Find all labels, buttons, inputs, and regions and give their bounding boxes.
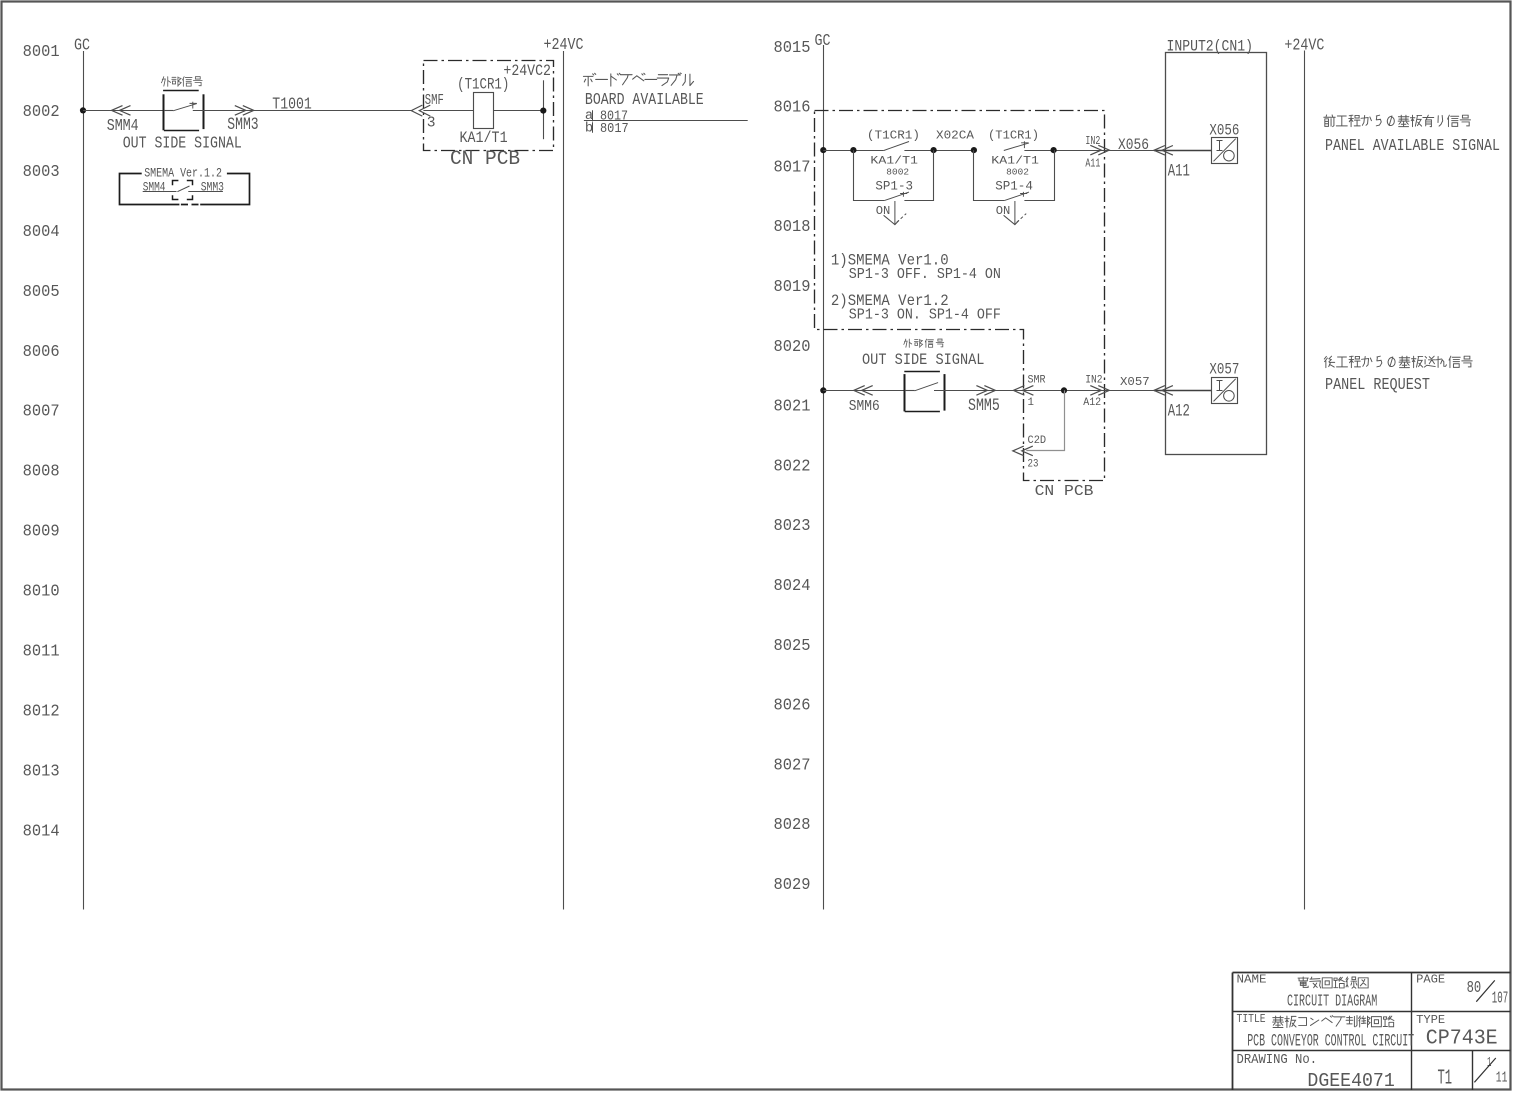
- note 前工程からの基板有り信号 (pseudo-glyphs): [1324, 115, 1471, 127]
- svg-text:DGEE4071: DGEE4071: [1307, 1070, 1394, 1093]
- svg-text:8003: 8003: [23, 162, 60, 181]
- relay coil KA1/T1: [474, 93, 494, 129]
- label 外部信号 (pseudo-glyphs): [161, 77, 202, 87]
- svg-text:8006: 8006: [23, 342, 60, 361]
- svg-text:IN2: IN2: [1085, 375, 1102, 387]
- arrow A12 (left chevrons at INPUT2 edge): [1154, 386, 1173, 396]
- svg-text:8013: 8013: [23, 762, 60, 781]
- arrow SMM4 (left chevrons): [112, 106, 131, 116]
- dashed brackets around smema contact: [173, 181, 193, 200]
- svg-text:ON: ON: [996, 204, 1011, 218]
- svg-text:X056: X056: [1118, 137, 1149, 154]
- svg-text:SMM3: SMM3: [201, 181, 224, 196]
- note box SMEMA Ver.1.2: [120, 174, 250, 205]
- svg-text:8007: 8007: [23, 402, 60, 421]
- wire X056 to INPUT2: [1104, 150, 1154, 152]
- svg-text:SMM4: SMM4: [107, 118, 139, 136]
- svg-text:(T1CR1): (T1CR1): [867, 129, 920, 143]
- svg-text:T1001: T1001: [272, 96, 312, 114]
- svg-text:8023: 8023: [774, 517, 811, 536]
- svg-text:8002: 8002: [1006, 167, 1029, 178]
- branch SP1-4 parallel wires: [974, 150, 1055, 200]
- switch S2 contact blade: [905, 390, 915, 392]
- svg-text:8027: 8027: [774, 756, 811, 775]
- svg-text:SP1-3 OFF. SP1-4 ON: SP1-3 OFF. SP1-4 ON: [849, 267, 1001, 284]
- svg-text:IN2: IN2: [1085, 135, 1100, 149]
- node: junction branch1 left: [850, 147, 856, 153]
- svg-text:A12: A12: [1083, 397, 1101, 409]
- wire from switch S1 to T1001 arrow: [193, 110, 411, 112]
- switch S1 contact blade: [164, 110, 173, 112]
- node: junction at +24VC2: [540, 108, 546, 114]
- wire smema contact: [143, 191, 223, 193]
- arrow SMR pin1 (left chevrons at dashed edge): [1013, 386, 1033, 396]
- svg-text:80: 80: [1467, 980, 1482, 998]
- arrow IN2 row8021 (right chevrons): [1090, 386, 1109, 396]
- connector box CN PCB (left, dash-dot): [424, 61, 554, 151]
- svg-text:8016: 8016: [774, 98, 811, 117]
- svg-text:8024: 8024: [774, 576, 811, 595]
- svg-text:CN PCB: CN PCB: [450, 148, 520, 170]
- svg-text:CN PCB: CN PCB: [1035, 483, 1094, 500]
- actuator ON SP1-4: [1014, 201, 1016, 225]
- wire C2D branch (light gray): [1026, 390, 1064, 450]
- note 後工程からの基板送れ信号 (pseudo-glyphs): [1324, 356, 1472, 367]
- svg-text:CP743E: CP743E: [1426, 1027, 1498, 1051]
- svg-text:8001: 8001: [23, 42, 60, 61]
- wire +24VC2 stub vertical: [543, 80, 545, 139]
- svg-text:PANEL REQUEST: PANEL REQUEST: [1325, 375, 1430, 395]
- left ladder line numbers 8001-8014: [23, 42, 60, 840]
- node: junction on GC rail row 8002: [80, 107, 86, 113]
- svg-text:8002: 8002: [886, 167, 909, 178]
- arrow SMM5 (right chevrons): [976, 386, 995, 396]
- svg-text:SMEMA Ver.1.2: SMEMA Ver.1.2: [144, 166, 222, 181]
- connector box CN PCB (right, dash-dot outline): [815, 111, 1105, 481]
- svg-text:PANEL AVAILABLE SIGNAL: PANEL AVAILABLE SIGNAL: [1325, 136, 1500, 156]
- svg-text:8021: 8021: [774, 397, 811, 416]
- wire row 8017 segment 2: [904, 150, 973, 152]
- svg-text:SMM3: SMM3: [227, 114, 258, 134]
- wire: branch separator line: [584, 120, 748, 122]
- wire: right GC vertical rail: [823, 45, 825, 910]
- right ladder line numbers 8015-8029: [774, 38, 811, 894]
- svg-text:8008: 8008: [23, 462, 60, 481]
- arrow A11 (left chevrons at INPUT2 edge): [1154, 146, 1173, 156]
- node: junction GC rail row 8021: [820, 387, 826, 393]
- label 外部信号 no.2 (pseudo-glyphs): [904, 339, 944, 347]
- svg-text:SP1-4: SP1-4: [995, 179, 1033, 193]
- svg-text:8019: 8019: [774, 277, 811, 296]
- title block frame: [1233, 972, 1511, 1090]
- contact SP1-3 blade: [884, 192, 909, 201]
- wire from S2 to CN PCB dashed edge: [934, 390, 1104, 392]
- svg-text:DRAWING No.: DRAWING No.: [1237, 1051, 1318, 1067]
- svg-text:KA1/T1: KA1/T1: [870, 154, 918, 167]
- wire: right +24VC vertical rail: [1304, 51, 1306, 910]
- node: junction GC rail row 8017: [820, 147, 826, 153]
- contact SP1-4 blade: [1004, 192, 1029, 201]
- svg-text:X02CA: X02CA: [936, 129, 974, 143]
- svg-text:8011: 8011: [23, 642, 60, 661]
- wire X057 to INPUT2: [1104, 390, 1154, 392]
- svg-text:SMM6: SMM6: [849, 399, 880, 415]
- wire row 8021 segment 1: [823, 390, 904, 392]
- svg-text:8004: 8004: [23, 222, 60, 241]
- svg-text:KA1/T1: KA1/T1: [460, 130, 508, 147]
- svg-text:SMR: SMR: [1028, 374, 1046, 386]
- I/O point X057 symbol: [1212, 378, 1238, 404]
- connector box INPUT2(CN1): [1166, 53, 1267, 455]
- arrow C2D pin23 (left chevrons): [1013, 446, 1033, 456]
- svg-text:8025: 8025: [774, 636, 811, 655]
- node: junction branch1 right: [931, 147, 937, 153]
- wire row 8017 segment 3: [1024, 150, 1104, 152]
- svg-text:GC: GC: [815, 30, 831, 50]
- svg-text:SP1-3: SP1-3: [875, 179, 913, 193]
- svg-text:23: 23: [1028, 459, 1039, 471]
- node: junction C2D branch: [1061, 387, 1067, 393]
- svg-text:(T1CR1): (T1CR1): [457, 76, 509, 94]
- svg-text:GC: GC: [74, 35, 90, 55]
- svg-text:8017: 8017: [774, 158, 811, 177]
- svg-text:8029: 8029: [774, 875, 811, 894]
- wire: left GC vertical rail: [83, 51, 85, 910]
- title 基板コンベア制御回路 (pseudo-glyphs): [1273, 1016, 1394, 1028]
- svg-text:X057: X057: [1120, 375, 1150, 389]
- svg-text:KA1/T1: KA1/T1: [991, 154, 1039, 167]
- arrow SMM6 (left chevrons): [854, 386, 873, 396]
- contact blade smema: [177, 186, 189, 192]
- node: junction branch2 right: [1051, 147, 1057, 153]
- note ボードアベーラブル (pseudo-glyphs): [583, 73, 693, 86]
- contact KA1/T1 no.1 (T1CR1): [884, 142, 909, 151]
- svg-text:8026: 8026: [774, 696, 811, 715]
- svg-text:X057: X057: [1209, 362, 1239, 379]
- switch S2 OUT SIDE SIGNAL (enclosure): [904, 372, 944, 412]
- svg-text:OUT SIDE SIGNAL: OUT SIDE SIGNAL: [862, 352, 984, 369]
- svg-text:SP1-3 ON. SP1-4 OFF: SP1-3 ON. SP1-4 OFF: [849, 307, 1001, 324]
- svg-text:PCB CONVEYOR CONTROL CIRCUIT: PCB CONVEYOR CONTROL CIRCUIT: [1247, 1032, 1414, 1052]
- arrow IN2 row8017 (right chevrons at CN PCB edge): [1090, 145, 1109, 155]
- svg-text:107: 107: [1492, 989, 1508, 1008]
- svg-text:8012: 8012: [23, 702, 60, 721]
- I/O point X056 symbol: [1212, 138, 1238, 164]
- svg-text:+24VC2: +24VC2: [503, 63, 551, 81]
- svg-text:A12: A12: [1168, 403, 1190, 421]
- wire row 8002 from GC rail to switch: [83, 110, 164, 112]
- svg-text:8017: 8017: [600, 120, 629, 136]
- svg-text:A11: A11: [1085, 157, 1100, 171]
- svg-text:C2D: C2D: [1028, 435, 1047, 447]
- svg-text:PAGE: PAGE: [1416, 972, 1445, 986]
- svg-text:TYPE: TYPE: [1416, 1013, 1445, 1027]
- svg-text:8018: 8018: [774, 218, 811, 237]
- svg-text:SMF: SMF: [425, 93, 444, 109]
- svg-text:8014: 8014: [23, 822, 60, 841]
- svg-text:8005: 8005: [23, 282, 60, 301]
- svg-text:8015: 8015: [774, 38, 811, 57]
- svg-text:A11: A11: [1168, 163, 1190, 181]
- svg-text:SMM4: SMM4: [143, 182, 166, 196]
- svg-text:8028: 8028: [774, 816, 811, 835]
- wire from coil to +24VC2 node: [493, 110, 543, 112]
- wire row 8017 segment 1: [823, 150, 884, 152]
- svg-text:ON: ON: [876, 204, 891, 218]
- svg-text:INPUT2(CN1): INPUT2(CN1): [1167, 39, 1253, 56]
- contact KA1/T1 no.2 (T1CR1) NC: [1004, 143, 1029, 151]
- svg-text:8020: 8020: [774, 337, 811, 356]
- arrow SMM3 (right chevrons): [235, 106, 254, 116]
- svg-text:11: 11: [1496, 1069, 1508, 1086]
- wire: left +24VC vertical rail: [563, 51, 565, 910]
- svg-text:b: b: [585, 121, 593, 137]
- node: junction branch2 left: [971, 147, 977, 153]
- arrow SMF pin3 (left chevrons at CN PCB edge): [411, 105, 430, 116]
- svg-text:8002: 8002: [23, 102, 60, 121]
- svg-text:NAME: NAME: [1237, 973, 1267, 987]
- svg-text:1: 1: [1028, 397, 1034, 409]
- svg-text:(T1CR1): (T1CR1): [988, 129, 1039, 143]
- title 電気回路線図 (pseudo-glyphs): [1298, 977, 1368, 988]
- svg-text:8010: 8010: [23, 582, 60, 601]
- svg-text:TITLE: TITLE: [1237, 1013, 1266, 1026]
- svg-text:8009: 8009: [23, 522, 60, 541]
- svg-text:SMM5: SMM5: [968, 395, 1000, 415]
- svg-text:T1: T1: [1438, 1067, 1453, 1090]
- branch SP1-3 parallel wires: [854, 150, 934, 200]
- svg-text:CIRCUIT DIAGRAM: CIRCUIT DIAGRAM: [1287, 994, 1377, 1012]
- svg-text:8022: 8022: [774, 457, 811, 476]
- actuator ON SP1-3: [894, 201, 896, 225]
- svg-text:OUT SIDE SIGNAL: OUT SIDE SIGNAL: [123, 135, 242, 153]
- switch S1 OUT SIDE SIGNAL (enclosure): [163, 91, 203, 131]
- svg-text:3: 3: [427, 116, 436, 132]
- wire inside CN PCB to relay coil: [423, 110, 473, 112]
